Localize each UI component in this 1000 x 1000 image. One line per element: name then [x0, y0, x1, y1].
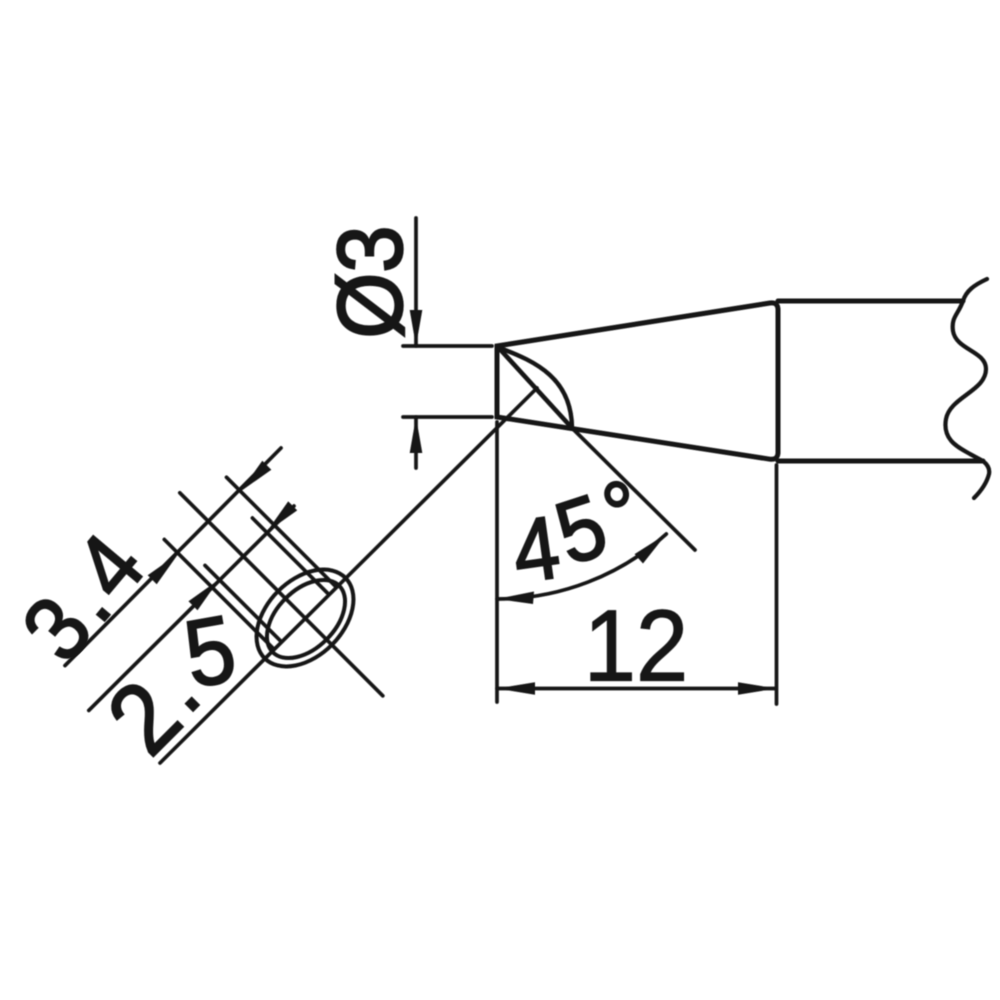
face-view outer ellipse [238, 551, 372, 685]
svg-text:Ø3: Ø3 [318, 226, 421, 339]
arrowhead 2.5 lower (points up-right) [189, 580, 220, 611]
svg-text:12: 12 [584, 589, 688, 702]
arrowhead dia3 lower (points up) [410, 417, 423, 453]
shank bottom line [778, 459, 983, 464]
dia3 dimension line upper shaft [414, 218, 418, 346]
arrowhead 2.5 upper (points down-left) [267, 501, 298, 532]
tick 3.4 upper [227, 477, 337, 587]
tick 2.5 upper [252, 518, 328, 594]
arrowhead 3.4 upper (points down-left) [241, 461, 272, 492]
bevel face elliptical arc [497, 347, 572, 427]
face-view minor axis line [180, 493, 383, 696]
tip body outline (cone from tip to shoulder) [497, 303, 778, 459]
dimension line 2.5 [89, 506, 294, 710]
shank top line [778, 299, 963, 304]
45-degree angle arc [497, 534, 666, 599]
face-view inner ellipse [252, 565, 359, 672]
dimension line 12 [497, 687, 776, 691]
45-degree reference line (extension of bevel chord) [572, 428, 695, 550]
tick 2.5 lower [205, 565, 281, 641]
dia3 dimension line lower shaft [414, 417, 418, 468]
arrowhead arc lower-left [497, 592, 534, 605]
dia3 lower extension line [403, 415, 492, 419]
arrowhead 12 left [497, 682, 535, 695]
arrowhead arc upper-right [635, 534, 667, 564]
dia3 upper extension line [403, 344, 492, 348]
face-view major axis line [160, 388, 537, 763]
arrowhead dia3 upper (points down) [410, 310, 423, 346]
svg-text:2: 2 [87, 660, 202, 775]
bevel face chord (thick diagonal) [497, 346, 572, 428]
tick 3.4 lower [164, 540, 274, 650]
dimension line 3.4 [65, 448, 281, 666]
arrowhead 12 right [738, 682, 776, 695]
right extension line below shoulder [775, 465, 779, 704]
arrowhead 3.4 lower (points up-right) [148, 554, 179, 585]
wavy break line [945, 279, 989, 498]
vertical extension line below tip corner [495, 422, 499, 702]
